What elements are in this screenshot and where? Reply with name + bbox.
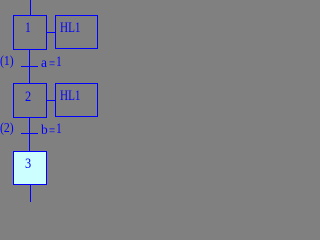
wire: connector step2 to action box bbox=[46, 100, 55, 101]
transition 2 bar bbox=[21, 133, 38, 134]
transition 2 designator (2) bbox=[0, 121, 14, 135]
action label HL1 (step 2) bbox=[60, 89, 80, 103]
action label HL1 (step 1) bbox=[60, 21, 80, 35]
transition 2 condition: 1 bbox=[56, 122, 62, 136]
transition 1 condition: a bbox=[41, 56, 47, 70]
wire: spine top segment (to step 1) bbox=[30, 0, 31, 16]
wire: spine step2 to step3 bbox=[29, 117, 30, 152]
wire: connector step1 to action box bbox=[46, 32, 55, 33]
step 2 bbox=[13, 83, 47, 118]
step 3 (active step, highlighted) bbox=[13, 151, 47, 185]
step 3 label bbox=[25, 157, 31, 171]
step 1 bbox=[13, 15, 47, 50]
action box HL1 (step 2) bbox=[55, 83, 98, 117]
action box HL1 (step 1) bbox=[55, 15, 98, 49]
transition 1 condition: 1 bbox=[56, 55, 62, 69]
transition 1 bar bbox=[21, 66, 38, 67]
step 2 label bbox=[25, 90, 31, 104]
transition 1 designator (1) bbox=[0, 54, 14, 68]
transition 1 condition: = bbox=[49, 57, 55, 71]
wire: spine step1 to step2 bbox=[29, 49, 30, 84]
wire: spine bottom segment (below step 3) bbox=[30, 184, 31, 202]
transition 2 condition: = bbox=[49, 124, 55, 138]
transition 2 condition: b bbox=[41, 123, 48, 137]
step 1 label bbox=[25, 21, 31, 35]
